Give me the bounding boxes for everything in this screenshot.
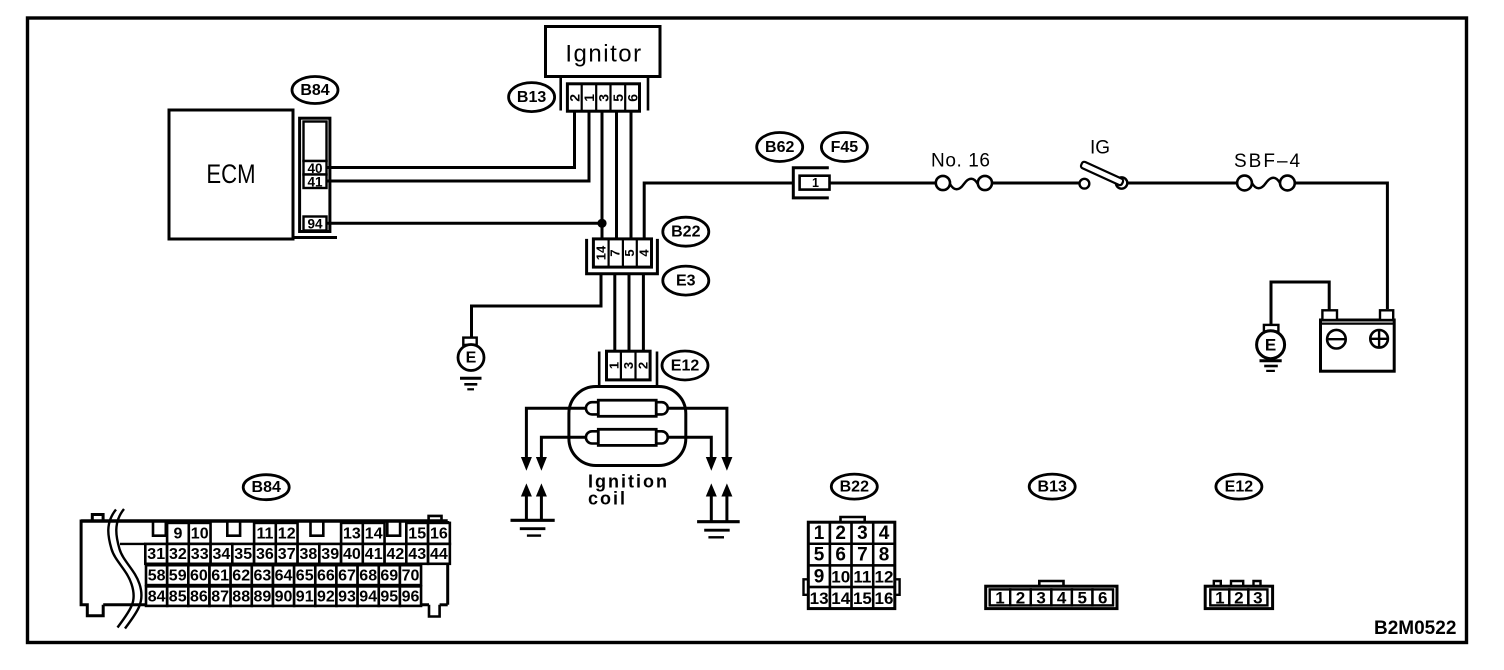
svg-text:89: 89	[254, 588, 272, 605]
svg-text:63: 63	[254, 568, 272, 585]
svg-text:4: 4	[879, 523, 890, 544]
fuse holder B62 outer	[793, 168, 829, 198]
svg-text:94: 94	[307, 217, 323, 232]
svg-text:60: 60	[190, 568, 208, 585]
svg-text:coil: coil	[588, 489, 627, 509]
svg-text:14: 14	[593, 245, 608, 260]
connector E12 pin layout 1x3	[1205, 581, 1272, 609]
wire ECM pin 41 to B13 pin 1	[327, 111, 589, 181]
ignition coil primary winding 1	[586, 400, 668, 416]
svg-text:2: 2	[1234, 589, 1243, 608]
connector B13 pin layout 1x6	[986, 581, 1117, 609]
svg-text:33: 33	[191, 546, 209, 563]
svg-text:B22: B22	[840, 479, 869, 496]
svg-text:No. 16: No. 16	[931, 151, 991, 172]
svg-text:E12: E12	[1225, 479, 1254, 496]
svg-text:87: 87	[211, 588, 229, 605]
svg-text:96: 96	[402, 588, 420, 605]
svg-text:5: 5	[622, 249, 637, 256]
svg-text:58: 58	[148, 568, 166, 585]
spark gap arrows right	[706, 483, 733, 521]
svg-text:14: 14	[831, 589, 850, 608]
ignitor U (Ignitor box)	[546, 27, 661, 77]
svg-text:E: E	[1265, 336, 1276, 355]
wire B22 pin 4 to E12 pin 2	[642, 274, 645, 352]
connector B13 (at ignitor, pins 2 1 3 5 6)	[561, 77, 648, 112]
svg-text:10: 10	[191, 526, 209, 543]
svg-text:11: 11	[853, 567, 871, 586]
ignition coil housing	[569, 387, 686, 466]
fuse No.16	[931, 151, 992, 191]
svg-text:4: 4	[637, 249, 652, 257]
svg-text:91: 91	[296, 588, 314, 605]
connector label oval E12 (pin layout)	[1216, 474, 1262, 499]
svg-text:41: 41	[307, 174, 323, 189]
svg-text:13: 13	[810, 589, 829, 608]
svg-text:93: 93	[338, 588, 356, 605]
wire coil1 right output	[668, 408, 727, 459]
svg-text:SBF–4: SBF–4	[1234, 151, 1302, 172]
svg-text:15: 15	[408, 526, 426, 543]
connector B84 pin strip (pins 40 41 94)	[300, 118, 330, 231]
wire No.16 to IG switch	[992, 182, 1080, 185]
connector label oval B22	[663, 217, 709, 246]
battery BAT	[1321, 310, 1395, 371]
svg-text:B84: B84	[300, 82, 329, 99]
wire B22 pin 4 to fuse holder B62	[644, 183, 793, 240]
svg-text:16: 16	[875, 589, 894, 608]
ground E (battery)	[1257, 325, 1285, 371]
svg-text:E12: E12	[671, 358, 700, 375]
svg-text:IG: IG	[1090, 138, 1110, 159]
wire B22 pin 7 to E12 pin 1	[613, 274, 616, 352]
svg-text:69: 69	[380, 568, 398, 585]
connector label oval B13 (pin layout)	[1029, 474, 1075, 499]
svg-text:88: 88	[232, 588, 250, 605]
label Ignition coil	[588, 472, 669, 509]
svg-text:94: 94	[359, 588, 377, 605]
ECM box	[169, 110, 293, 239]
svg-text:1: 1	[1215, 589, 1224, 608]
fusible link SBF-4	[1234, 151, 1302, 190]
svg-text:42: 42	[387, 546, 405, 563]
switch IG	[1080, 138, 1128, 189]
wire battery negative to ground E	[1271, 282, 1329, 325]
svg-text:34: 34	[213, 546, 231, 563]
connector label oval B22 (pin layout)	[831, 474, 877, 499]
svg-text:E3: E3	[676, 273, 696, 290]
connector label oval F45	[821, 133, 867, 162]
svg-text:8: 8	[879, 545, 890, 566]
svg-text:86: 86	[190, 588, 208, 605]
svg-text:B22: B22	[671, 224, 700, 241]
svg-text:59: 59	[169, 568, 187, 585]
svg-text:3: 3	[1253, 589, 1262, 608]
connector label oval E12	[662, 351, 708, 380]
svg-text:65: 65	[296, 568, 314, 585]
svg-text:39: 39	[321, 546, 339, 563]
wire ECM pin 94 to junction	[327, 222, 602, 225]
wire fuse to No.16	[830, 182, 936, 185]
connector label oval B13	[509, 83, 555, 112]
svg-text:5: 5	[1077, 589, 1086, 608]
svg-text:13: 13	[343, 526, 361, 543]
B84 row 1 cells (9-16)	[167, 523, 450, 544]
svg-text:E: E	[466, 350, 477, 367]
svg-text:62: 62	[232, 568, 250, 585]
svg-text:84: 84	[148, 588, 166, 605]
svg-text:68: 68	[359, 568, 377, 585]
wire B13 pin 3 to B22 pin 14	[601, 111, 604, 240]
svg-text:2: 2	[835, 523, 846, 544]
wire coil1 left output	[526, 408, 586, 459]
connector label oval B84	[292, 77, 338, 104]
B84 row 2 cells (31-44)	[145, 544, 450, 564]
B84 row 3 cells (58-70)	[146, 565, 421, 585]
svg-text:1: 1	[995, 589, 1004, 608]
svg-text:10: 10	[831, 567, 850, 586]
svg-text:85: 85	[169, 588, 187, 605]
B84 row 4 cells (84-96)	[146, 586, 421, 606]
svg-text:3: 3	[857, 523, 868, 544]
svg-text:95: 95	[380, 588, 398, 605]
connector label oval B84 (pin layout)	[243, 475, 289, 500]
svg-text:6: 6	[1098, 589, 1107, 608]
connector label oval B62	[757, 133, 803, 162]
connector B22 (pins 14 7 5 4)	[587, 239, 658, 274]
svg-text:37: 37	[278, 546, 296, 563]
wire B22 pin 14 to ground E	[472, 274, 602, 338]
svg-text:B2M0522: B2M0522	[1374, 618, 1456, 639]
connector B84 pin layout body	[81, 509, 448, 629]
svg-text:2: 2	[1016, 589, 1025, 608]
svg-text:1: 1	[606, 362, 621, 369]
svg-text:66: 66	[317, 568, 335, 585]
svg-text:36: 36	[256, 546, 274, 563]
ground E (left)	[458, 338, 484, 390]
svg-text:16: 16	[430, 526, 448, 543]
spark gap arrows left	[521, 483, 547, 520]
svg-text:12: 12	[278, 526, 296, 543]
svg-text:43: 43	[408, 546, 426, 563]
svg-text:35: 35	[234, 546, 252, 563]
svg-text:38: 38	[300, 546, 318, 563]
svg-text:31: 31	[147, 546, 165, 563]
wire IG to SBF-4	[1127, 182, 1237, 185]
svg-text:3: 3	[621, 362, 636, 369]
connector B22 pin layout 4x4	[804, 517, 900, 609]
wire B13 pin 6 to B22 pin 5	[630, 111, 633, 240]
connector label oval E3	[663, 266, 709, 295]
svg-text:5: 5	[814, 545, 825, 566]
connector E12 (pins 1 3 2)	[599, 351, 657, 386]
ignition coil winding 2	[586, 429, 668, 445]
svg-text:2: 2	[635, 362, 650, 369]
B84 castellation notches	[153, 521, 400, 536]
ground (left spark)	[511, 520, 555, 535]
svg-text:44: 44	[430, 546, 448, 563]
svg-text:1: 1	[814, 523, 825, 544]
wire SBF-4 to battery	[1295, 183, 1388, 309]
svg-text:B13: B13	[1038, 479, 1067, 496]
fuse F45 cell 1	[800, 176, 830, 191]
svg-text:9: 9	[814, 566, 825, 587]
svg-text:4: 4	[1057, 589, 1067, 608]
svg-text:7: 7	[857, 545, 868, 566]
svg-text:B13: B13	[517, 89, 546, 106]
svg-text:40: 40	[343, 546, 361, 563]
junction dot	[597, 219, 606, 228]
svg-text:9: 9	[173, 526, 182, 543]
svg-text:B62: B62	[765, 139, 794, 156]
svg-text:12: 12	[875, 567, 894, 586]
svg-text:ECM: ECM	[206, 160, 255, 190]
svg-text:64: 64	[275, 568, 293, 585]
svg-text:F45: F45	[831, 139, 859, 156]
wire B13 pin 5 to B22 pin 7	[615, 111, 618, 240]
wire coil2 right output	[668, 437, 711, 459]
svg-text:15: 15	[853, 589, 872, 608]
svg-text:7: 7	[608, 249, 623, 256]
ground (right spark)	[697, 522, 740, 538]
svg-text:92: 92	[317, 588, 335, 605]
svg-text:1: 1	[812, 176, 819, 190]
wire B22 pin 5 to E12 pin 3	[628, 274, 631, 352]
svg-text:B84: B84	[252, 479, 281, 496]
svg-text:90: 90	[275, 588, 293, 605]
svg-text:14: 14	[365, 526, 383, 543]
svg-text:61: 61	[211, 568, 229, 585]
svg-text:Ignitor: Ignitor	[565, 41, 642, 68]
svg-text:41: 41	[365, 546, 383, 563]
svg-text:6: 6	[624, 94, 640, 102]
svg-text:11: 11	[256, 526, 273, 543]
svg-text:6: 6	[835, 545, 846, 566]
svg-text:70: 70	[402, 568, 420, 585]
svg-text:67: 67	[338, 568, 356, 585]
wire ECM pin 40 to B13 pin 2	[327, 111, 575, 168]
ECM bottom edge extension	[293, 236, 337, 239]
svg-text:32: 32	[169, 546, 187, 563]
wire coil2 left output	[541, 437, 586, 459]
svg-text:3: 3	[1036, 589, 1045, 608]
